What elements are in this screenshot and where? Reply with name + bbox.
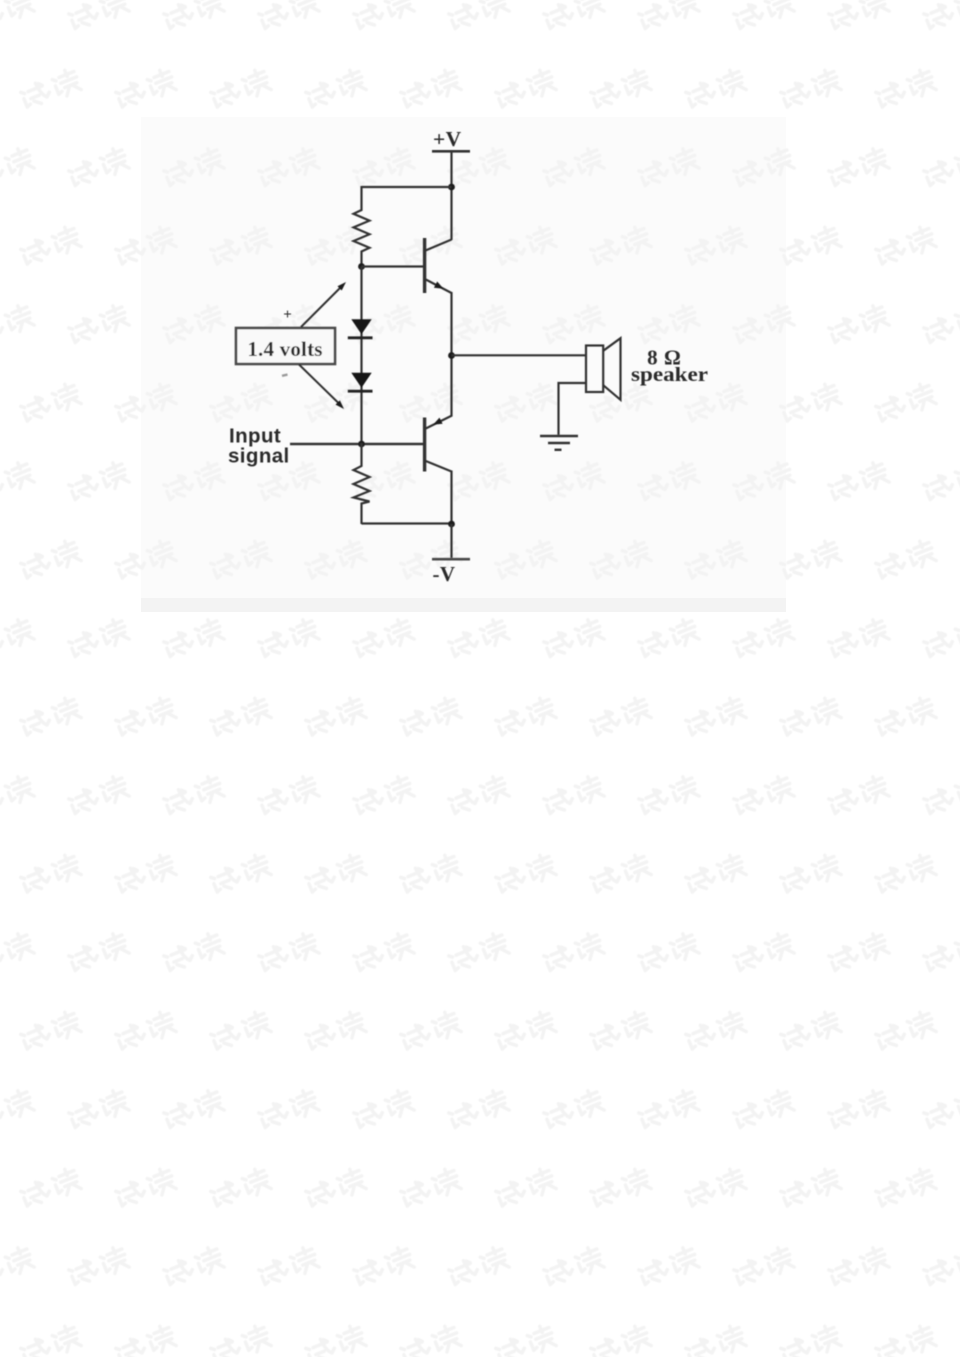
transistor Q2 xyxy=(425,416,452,472)
svg-text:speaker: speaker xyxy=(631,364,708,386)
resistor R2 xyxy=(354,443,370,524)
wire: +V to collector node xyxy=(450,152,452,240)
power +V rail bar xyxy=(432,150,470,153)
svg-text:+V: +V xyxy=(433,127,462,151)
wire: bottom horizontal xyxy=(362,522,452,524)
node: R1 / Q1 base junction dot xyxy=(358,263,365,270)
wire: input signal to Q2 base xyxy=(290,443,424,446)
svg-text:+: + xyxy=(283,307,292,323)
label "8 ohm speaker" xyxy=(631,345,708,386)
node: input / R2 junction dot xyxy=(358,441,365,448)
wire: Q2 collector down to -V node xyxy=(450,471,452,525)
node: output junction dot xyxy=(448,352,455,359)
arrow from label box to diode D1 xyxy=(301,282,346,327)
wire: bottom node to -V bar xyxy=(450,524,452,558)
label box "1.4 volts" xyxy=(236,328,335,364)
node: bottom junction dot xyxy=(448,521,455,528)
wire: Q2 emitter up to output node xyxy=(450,356,452,417)
svg-text:1.4 volts: 1.4 volts xyxy=(247,337,322,361)
diode D1 xyxy=(348,319,373,338)
ground xyxy=(540,436,578,450)
node: top junction dot xyxy=(448,184,455,191)
wire: top horizontal (node to R1) xyxy=(362,186,452,188)
wire: output node to speaker xyxy=(452,354,587,356)
arrow from label box to diode D2 xyxy=(299,365,344,410)
label "Input signal" xyxy=(228,425,290,468)
stray mark below box xyxy=(282,375,288,376)
wire: Q1 base wire xyxy=(362,265,424,267)
label + polarity mark xyxy=(283,307,292,323)
diode D2 xyxy=(348,373,373,391)
wire: diode string vertical xyxy=(360,267,362,445)
label +V xyxy=(433,127,462,151)
wire: speaker to ground xyxy=(559,383,587,435)
wire: Q1 emitter down to output node xyxy=(450,292,452,356)
resistor R1 xyxy=(354,186,370,267)
label -V xyxy=(433,562,456,586)
transistor Q1 xyxy=(425,238,452,293)
power -V rail bar xyxy=(432,558,470,561)
speaker LS1 (8 ohm) xyxy=(586,338,621,400)
svg-text:signal: signal xyxy=(228,445,290,468)
svg-text:-V: -V xyxy=(433,562,456,586)
